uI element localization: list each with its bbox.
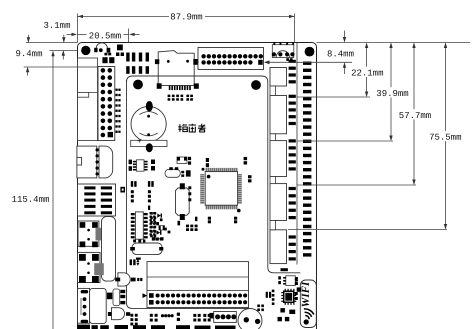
diode D3 small [157, 214, 162, 218]
svg-text:22.1mm: 22.1mm [351, 68, 383, 78]
dimension 87.9mm extension line left [77, 14, 79, 43]
pad grids 2x2 bottom center [193, 314, 210, 322]
push button K1 [94, 43, 111, 56]
pad pair 2 [206, 158, 209, 167]
pads above crystal X2 [133, 240, 145, 243]
pad column pairs right of U4 [150, 212, 156, 237]
dimension 115.4mm line [52, 52, 54, 329]
svg-text:20.5mm: 20.5mm [89, 31, 121, 41]
regulator U5 [107, 289, 125, 306]
right outer pad column (edge header) [303, 62, 311, 257]
WIFI module outline [300, 280, 316, 328]
LCD header square pads pin1 [149, 293, 154, 304]
2x9 pad strip left of LCD [115, 89, 120, 133]
dimension label 87.9mm [169, 11, 203, 21]
diode D2 half-stadium [108, 308, 130, 320]
dimension label 39.9mm [375, 87, 409, 97]
mounting hole top-right [305, 47, 315, 57]
MCU decoupling caps [195, 157, 252, 223]
pads above left header [102, 57, 114, 63]
tiny 4-dot strip [161, 314, 174, 317]
reset button K2 [272, 42, 295, 58]
SD card slot outline [158, 51, 194, 86]
LCD header pin rows [156, 293, 248, 304]
power connector 2x5 pads [78, 184, 116, 216]
svg-text:115.4mm: 115.4mm [12, 195, 50, 205]
pads on LCD left edge [129, 160, 132, 171]
pad pair right of U7 [151, 160, 155, 171]
pads row below U6 [152, 238, 163, 241]
component R with pads [159, 226, 165, 230]
dimension 75.5mm line [445, 44, 447, 229]
USB body tall rounded outline [102, 217, 116, 282]
LCD module outline left/bottom [127, 80, 250, 308]
SD pads group 2x4 [168, 95, 184, 101]
dimension 8.4mm leader line with arrow at header [265, 61, 352, 63]
WIFI antenna icon [304, 309, 314, 324]
dense pad column U6 [150, 212, 156, 236]
extension line board top edge (right) [317, 42, 471, 44]
ESP8266 chip [281, 289, 296, 305]
small pad grids above U4 [131, 190, 151, 202]
SMD pads row group 1 [126, 53, 149, 62]
SD pads group 2x2 [186, 95, 193, 101]
USB1 notch [77, 157, 82, 165]
svg-text:WIFI: WIFI [300, 281, 312, 307]
dimension 20.5mm extension tick [128, 29, 130, 43]
inner vertical line right region [296, 43, 298, 265]
right inner pad column groups [289, 60, 296, 261]
right header white boxes [270, 68, 287, 264]
pad grid 2x3 below MCU [186, 225, 198, 231]
USB connector 1 body [77, 146, 97, 178]
LCD header pin1 arrow [143, 293, 148, 298]
svg-text:39.9mm: 39.9mm [376, 89, 408, 99]
pad at LCD left edge [148, 206, 150, 211]
left header connector outline [98, 67, 115, 141]
dimension 20.5mm line and outside arrows [67, 33, 73, 35]
pad below crystal X2 [136, 258, 141, 260]
bottom edge pads (clipped) [77, 325, 235, 329]
buzzer inner arcs and dots [138, 112, 158, 143]
dimension label 20.5mm [88, 30, 122, 40]
dimension 75.5mm leader line [288, 229, 447, 231]
crystal X2 horizontal pill [130, 243, 163, 255]
component with end caps [177, 157, 187, 164]
svg-text:3.1mm: 3.1mm [43, 21, 70, 31]
SMD pads row group 2 [126, 66, 149, 74]
mini-USB footprint 2 [78, 252, 101, 282]
buzzer flange rect [131, 140, 167, 146]
dimension 87.9mm line [78, 15, 170, 17]
dimension label 8.4mm [326, 48, 355, 58]
capacitor pad C near button [117, 45, 123, 51]
IC U3 SOIC [283, 276, 298, 286]
dimension 87.9mm extension line right [294, 14, 296, 43]
LCD mounting dot right [251, 80, 261, 90]
buzzer outline [131, 106, 166, 141]
pad below crystal Y1 [178, 221, 181, 226]
pads and cross right of crystal X2 [152, 237, 163, 240]
pad pair x177 [177, 313, 180, 321]
IC U7 SOIC8 [133, 160, 148, 171]
MCU U1 body [205, 172, 237, 206]
small pads around wifi section [266, 268, 301, 321]
diode D1 half-stadium [115, 273, 142, 286]
dimension 39.9mm leader line [297, 140, 394, 142]
pad grid 2x3 bottom-left [130, 314, 137, 326]
dimension 22.1mm line [366, 44, 368, 97]
pad grid near transistor [252, 305, 264, 320]
pad below D3 [160, 218, 163, 221]
dimension label 22.1mm [350, 67, 384, 77]
transistor TO-92 [238, 309, 262, 329]
extension line y=67 (connector top) [24, 66, 78, 68]
IC U4 SSOP [131, 212, 148, 239]
LCD header outer box [147, 262, 249, 308]
dimension 9.4mm arrows [27, 35, 29, 42]
LCD header divider [147, 276, 249, 278]
pad grid 2x2 x150 [150, 314, 158, 322]
svg-text:8.4mm: 8.4mm [327, 49, 354, 59]
cap pads above U4 [131, 181, 154, 187]
PCB board outline [78, 43, 317, 329]
SD card contact fingers [169, 86, 191, 91]
silkscreen text 指南者 [178, 124, 205, 132]
LCD mounting dot left [133, 80, 143, 90]
cap pad pair below LCD [130, 259, 136, 265]
dimension 57.7mm leader line [297, 184, 417, 186]
LCD module outline top/right [127, 76, 301, 273]
left header holes 2 columns [101, 68, 113, 137]
pin header 1x4 bottom [210, 312, 237, 323]
left edge connector boxes [78, 58, 98, 141]
pad square with hole right of power connector [120, 187, 125, 193]
top pin header J1 pins row 1 [201, 54, 263, 58]
buzzer pad top [146, 101, 153, 112]
svg-text:57.7mm: 57.7mm [399, 111, 431, 121]
diode D4 small [157, 230, 162, 234]
dimension 3.1mm arrows [63, 35, 65, 42]
top pin header J1 pins row 2 (square pin 1 at right) [201, 60, 262, 65]
extension line y=50.5 (hole center) [50, 50, 78, 52]
SD card pads [155, 59, 199, 89]
mini-USB 1 pin block [96, 228, 105, 241]
LCD header pin strip box [147, 291, 249, 308]
dimension label 75.5mm [428, 131, 462, 141]
buzzer pad bottom [146, 143, 153, 152]
MCU U1 LQFP pin bands [200, 168, 242, 209]
USB1 pin holes [96, 148, 99, 175]
pad pair [156, 222, 159, 225]
crystal X3 horizontal pill [165, 167, 191, 177]
USB1 D-shell outline [99, 146, 113, 178]
dimension label 57.7mm [398, 109, 432, 119]
extension line board top edge (left) [26, 42, 78, 44]
svg-text:87.9mm: 87.9mm [170, 12, 202, 22]
mini-USB footprint 1 [78, 221, 99, 247]
MCU pin1 dots [202, 168, 241, 213]
dimension 8.4mm arrows [344, 31, 346, 42]
mini-USB 2 pin block [94, 263, 104, 275]
dual diode D5 [136, 259, 139, 266]
pads right of D4 [164, 228, 170, 234]
pads below reset button [286, 58, 292, 61]
dimension 39.9mm line [390, 44, 392, 141]
top pin header J1 outline [198, 48, 264, 70]
dimension 22.1mm leader line [297, 96, 371, 98]
resistor pads R pair [116, 53, 124, 57]
crystal Y1 vertical [176, 183, 192, 220]
svg-text:9.4mm: 9.4mm [15, 49, 42, 59]
bottom-left power connector [78, 288, 107, 323]
dimension 57.7mm line [413, 44, 415, 185]
pad pair [188, 157, 191, 165]
svg-text:75.5mm: 75.5mm [429, 133, 461, 143]
mounting hole top-left [81, 46, 90, 55]
